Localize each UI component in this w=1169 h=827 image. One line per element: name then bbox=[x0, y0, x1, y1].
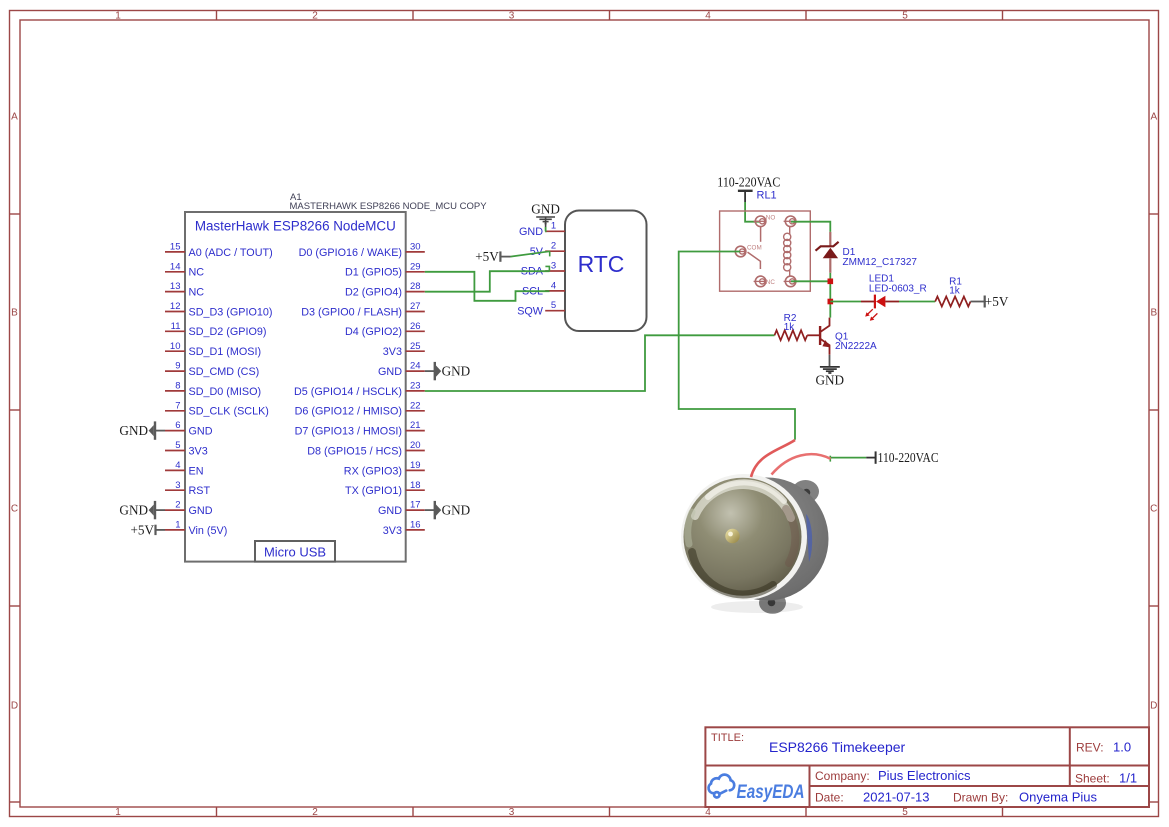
svg-text:D: D bbox=[1150, 701, 1157, 712]
IC RTC body bbox=[565, 211, 647, 332]
IC U1 A1 MasterHawk ESP8266 NodeMCU body bbox=[185, 212, 406, 562]
bell wire 2 (red, to 110-220VAC net) bbox=[772, 454, 831, 474]
svg-text:16: 16 bbox=[410, 520, 421, 531]
svg-text:NO: NO bbox=[766, 215, 776, 222]
pin 13 NC (U1 left) bbox=[165, 281, 204, 298]
pin 5 SQW (RTC) bbox=[517, 300, 565, 317]
svg-text:D5 (GPIO14 / HSCLK): D5 (GPIO14 / HSCLK) bbox=[294, 386, 402, 398]
svg-text:5: 5 bbox=[175, 440, 180, 451]
pin 22 D6 (GPIO12 / HMISO) (U1 right) bbox=[295, 400, 425, 417]
svg-text:25: 25 bbox=[410, 341, 421, 352]
svg-text:5: 5 bbox=[902, 807, 908, 818]
svg-text:NC: NC bbox=[766, 279, 776, 286]
svg-text:3V3: 3V3 bbox=[383, 525, 402, 537]
svg-text:12: 12 bbox=[170, 301, 181, 312]
svg-text:1: 1 bbox=[115, 10, 121, 21]
label RL1 bbox=[757, 190, 777, 202]
svg-text:6: 6 bbox=[175, 420, 180, 431]
svg-text:REV:: REV: bbox=[1076, 741, 1104, 755]
svg-text:COM: COM bbox=[747, 245, 762, 252]
transistor Q1 2N2222A bbox=[807, 318, 830, 355]
pin 17 GND (U1 right) bbox=[378, 500, 425, 517]
pin 15 A0 (ADC / TOUT) (U1 left) bbox=[165, 242, 273, 259]
svg-text:Date:: Date: bbox=[815, 791, 844, 805]
svg-text:3V3: 3V3 bbox=[189, 445, 208, 457]
net port 110-220VAC (right) bbox=[866, 450, 938, 465]
svg-text:NC: NC bbox=[189, 287, 205, 299]
label Q1 2N2222A bbox=[835, 331, 877, 352]
pin 6 GND (U1 left) bbox=[165, 420, 213, 437]
pin 1 Vin (5V) (U1 left) bbox=[165, 520, 227, 537]
pin 28 D2 (GPIO4) (U1 right) bbox=[345, 281, 425, 298]
svg-text:A: A bbox=[1150, 112, 1157, 123]
junction node (relay NC / D1) bbox=[828, 279, 834, 285]
svg-text:D6 (GPIO12 / HMISO): D6 (GPIO12 / HMISO) bbox=[295, 406, 402, 418]
svg-text:4: 4 bbox=[175, 460, 180, 471]
svg-text:1: 1 bbox=[551, 221, 556, 232]
wire D1(GPIO5) pin29 to RTC SCL bbox=[425, 272, 550, 301]
pin 19 RX (GPIO3) (U1 right) bbox=[344, 460, 425, 477]
pin 4 EN (U1 left) bbox=[165, 460, 204, 477]
svg-text:24: 24 bbox=[410, 361, 421, 372]
svg-text:GND: GND bbox=[531, 201, 560, 216]
svg-text:13: 13 bbox=[170, 281, 181, 292]
svg-text:D0 (GPIO16 / WAKE): D0 (GPIO16 / WAKE) bbox=[299, 247, 402, 259]
pin 2 GND (U1 left) bbox=[165, 500, 213, 517]
svg-text:D7 (GPIO13 / HMOSI): D7 (GPIO13 / HMOSI) bbox=[295, 426, 402, 438]
svg-text:Vin (5V): Vin (5V) bbox=[189, 525, 228, 537]
svg-text:Sheet:: Sheet: bbox=[1075, 771, 1110, 785]
net port 110-220VAC (top) bbox=[717, 175, 780, 203]
Micro USB connector box bbox=[255, 541, 335, 562]
svg-text:20: 20 bbox=[410, 440, 421, 451]
pin 30 D0 (GPIO16 / WAKE) (U1 right) bbox=[299, 242, 425, 259]
svg-text:2: 2 bbox=[312, 10, 318, 21]
svg-text:ZMM12_C17327: ZMM12_C17327 bbox=[843, 257, 918, 268]
svg-text:17: 17 bbox=[410, 500, 421, 511]
wire LED1 to R1 bbox=[899, 301, 935, 303]
svg-text:11: 11 bbox=[171, 321, 181, 332]
svg-text:2: 2 bbox=[551, 241, 556, 252]
svg-text:110-220VAC: 110-220VAC bbox=[878, 450, 939, 465]
pin 27 D3 (GPIO0 / FLASH) (U1 right) bbox=[301, 301, 425, 318]
svg-text:18: 18 bbox=[410, 480, 421, 491]
ground flag GND (left) bbox=[119, 421, 165, 439]
svg-text:C: C bbox=[11, 504, 18, 515]
relay RL1 bbox=[720, 211, 811, 291]
svg-text:D1 (GPIO5): D1 (GPIO5) bbox=[345, 267, 402, 279]
svg-text:15: 15 bbox=[170, 242, 181, 253]
pin 29 D1 (GPIO5) (U1 right) bbox=[345, 261, 425, 278]
svg-text:1k: 1k bbox=[784, 322, 796, 333]
svg-text:14: 14 bbox=[170, 261, 181, 272]
svg-text:TITLE:: TITLE: bbox=[711, 732, 744, 744]
svg-text:Micro USB: Micro USB bbox=[264, 544, 326, 559]
svg-text:RTC: RTC bbox=[578, 251, 625, 277]
pin 1 GND (RTC) bbox=[519, 221, 565, 238]
power flag +5V (pin 1) bbox=[130, 523, 165, 538]
svg-text:+5V: +5V bbox=[985, 294, 1009, 309]
pin 12 SD_D3 (GPIO10) (U1 left) bbox=[165, 301, 273, 318]
svg-text:5: 5 bbox=[902, 10, 908, 21]
label R1 1k bbox=[949, 276, 962, 296]
svg-text:GND: GND bbox=[816, 373, 845, 388]
svg-text:9: 9 bbox=[175, 361, 180, 372]
svg-text:Company:: Company: bbox=[815, 769, 870, 783]
svg-text:Onyema Pius: Onyema Pius bbox=[1019, 790, 1098, 805]
resistor R1 1k bbox=[935, 297, 970, 307]
svg-text:SD_D0 (MISO): SD_D0 (MISO) bbox=[189, 386, 262, 398]
svg-text:7: 7 bbox=[175, 400, 180, 411]
svg-text:28: 28 bbox=[410, 281, 421, 292]
svg-text:SD_CMD (CS): SD_CMD (CS) bbox=[189, 366, 260, 378]
svg-text:1/1: 1/1 bbox=[1119, 770, 1137, 785]
pin 4 SCL (RTC) bbox=[522, 280, 565, 297]
resistor R2 1k bbox=[775, 330, 808, 340]
power flag +5V to RTC pin 2 bbox=[475, 249, 510, 264]
svg-text:GND: GND bbox=[378, 505, 402, 517]
svg-text:D8 (GPIO15 / HCS): D8 (GPIO15 / HCS) bbox=[307, 445, 402, 457]
svg-text:TX (GPIO1): TX (GPIO1) bbox=[345, 485, 402, 497]
svg-text:21: 21 bbox=[410, 420, 421, 431]
pin 8 SD_D0 (MISO) (U1 left) bbox=[165, 381, 261, 398]
svg-text:SD_D1 (MOSI): SD_D1 (MOSI) bbox=[189, 346, 262, 358]
wire D2(GPIO4) pin28 to RTC SDA bbox=[425, 266, 550, 291]
svg-text:EN: EN bbox=[189, 465, 204, 477]
svg-text:B: B bbox=[1150, 308, 1157, 319]
svg-text:RL1: RL1 bbox=[757, 190, 777, 202]
svg-text:Drawn By:: Drawn By: bbox=[953, 791, 1008, 805]
pin 25 3V3 (U1 right) bbox=[383, 341, 425, 358]
svg-text:D3 (GPIO0 / FLASH): D3 (GPIO0 / FLASH) bbox=[301, 306, 402, 318]
svg-text:A0 (ADC / TOUT): A0 (ADC / TOUT) bbox=[189, 247, 273, 259]
wire 110-220VAC to relay NO bbox=[745, 202, 760, 222]
pin 7 SD_CLK (SCLK) (U1 left) bbox=[165, 400, 269, 417]
svg-text:110-220VAC: 110-220VAC bbox=[717, 175, 780, 190]
svg-text:RX (GPIO3): RX (GPIO3) bbox=[344, 465, 402, 477]
svg-text:D2 (GPIO4): D2 (GPIO4) bbox=[345, 287, 402, 299]
wire bell to 110-220VAC port bbox=[830, 456, 867, 462]
svg-text:3: 3 bbox=[551, 260, 556, 271]
svg-text:EasyEDA: EasyEDA bbox=[737, 782, 805, 803]
svg-text:2N2222A: 2N2222A bbox=[835, 341, 877, 352]
svg-text:ESP8266 Timekeeper: ESP8266 Timekeeper bbox=[769, 739, 906, 755]
svg-text:GND: GND bbox=[378, 366, 402, 378]
svg-text:D4 (GPIO2): D4 (GPIO2) bbox=[345, 326, 402, 338]
svg-text:5: 5 bbox=[551, 300, 556, 311]
pin 23 D5 (GPIO14 / HSCLK) (U1 right) bbox=[294, 381, 425, 398]
svg-text:2021-07-13: 2021-07-13 bbox=[863, 790, 930, 805]
svg-text:B: B bbox=[11, 308, 18, 319]
pin 18 TX (GPIO1) (U1 right) bbox=[345, 480, 425, 497]
wire relay coil bottom to junction bbox=[791, 280, 830, 282]
svg-text:NC: NC bbox=[189, 267, 205, 279]
svg-text:26: 26 bbox=[410, 321, 421, 332]
svg-text:1k: 1k bbox=[949, 286, 961, 297]
svg-text:4: 4 bbox=[551, 280, 556, 291]
wire junction to LED1 bbox=[830, 301, 861, 303]
svg-text:SD_CLK (SCLK): SD_CLK (SCLK) bbox=[189, 406, 269, 418]
svg-text:22: 22 bbox=[410, 400, 421, 411]
svg-text:4: 4 bbox=[705, 807, 711, 818]
part name MASTERHAWK ESP8266 NODE_MCU COPY bbox=[290, 201, 488, 212]
pin 24 GND (U1 right) bbox=[378, 361, 425, 378]
svg-text:19: 19 bbox=[410, 460, 421, 471]
pin 5 3V3 (U1 left) bbox=[165, 440, 208, 457]
svg-text:GND: GND bbox=[119, 423, 148, 438]
svg-text:LED-0603_R: LED-0603_R bbox=[869, 283, 927, 294]
svg-text:1: 1 bbox=[115, 807, 121, 818]
svg-text:1.0: 1.0 bbox=[1113, 740, 1131, 755]
pin 3 RST (U1 left) bbox=[165, 480, 210, 497]
label R2 1k bbox=[784, 313, 797, 333]
designator A1 bbox=[290, 192, 302, 203]
svg-text:29: 29 bbox=[410, 261, 421, 272]
pin 2 5V (RTC) bbox=[530, 241, 565, 258]
ground flag GND (above RTC pin 1) bbox=[531, 201, 560, 231]
power flag +5V (right of R1) bbox=[971, 294, 1009, 309]
svg-text:8: 8 bbox=[175, 381, 180, 392]
pin 20 D8 (GPIO15 / HCS) (U1 right) bbox=[307, 440, 425, 457]
svg-text:+5V: +5V bbox=[130, 523, 154, 538]
svg-text:MasterHawk ESP8266 NodeMCU: MasterHawk ESP8266 NodeMCU bbox=[195, 219, 396, 234]
svg-text:C: C bbox=[1150, 504, 1157, 515]
EasyEDA logo bbox=[709, 775, 805, 803]
svg-text:RST: RST bbox=[189, 485, 211, 497]
wire D5(GPIO14) pin23 to R2 bbox=[425, 335, 775, 391]
svg-text:Pius Electronics: Pius Electronics bbox=[878, 768, 971, 783]
ground flag GND (left) bbox=[119, 501, 165, 519]
pin 9 SD_CMD (CS) (U1 left) bbox=[165, 361, 259, 378]
svg-text:MASTERHAWK ESP8266 NODE_MCU CO: MASTERHAWK ESP8266 NODE_MCU COPY bbox=[290, 201, 488, 212]
svg-text:2: 2 bbox=[175, 500, 180, 511]
ground flag GND (right) bbox=[425, 362, 470, 380]
svg-text:GND: GND bbox=[189, 426, 213, 438]
junction node (LED branch / collector) bbox=[828, 299, 834, 305]
svg-text:27: 27 bbox=[410, 301, 421, 312]
pin 16 3V3 (U1 right) bbox=[383, 520, 425, 537]
svg-text:+5V: +5V bbox=[475, 249, 499, 264]
svg-text:3: 3 bbox=[509, 807, 515, 818]
svg-text:3: 3 bbox=[175, 480, 180, 491]
pin 3 SDA (RTC) bbox=[521, 260, 565, 277]
svg-text:23: 23 bbox=[410, 381, 421, 392]
svg-text:SQW: SQW bbox=[517, 305, 544, 317]
svg-text:D: D bbox=[11, 701, 18, 712]
svg-text:GND: GND bbox=[442, 503, 471, 518]
svg-text:3: 3 bbox=[509, 10, 515, 21]
ground flag GND (right) bbox=[425, 501, 470, 519]
bell wire 1 (red, to relay COM net) bbox=[751, 440, 795, 477]
pin 21 D7 (GPIO13 / HMOSI) (U1 right) bbox=[295, 420, 425, 437]
svg-text:SD_D3 (GPIO10): SD_D3 (GPIO10) bbox=[189, 306, 273, 318]
pin 10 SD_D1 (MOSI) (U1 left) bbox=[165, 341, 261, 358]
wire relay coil top to D1 bbox=[791, 222, 830, 232]
svg-text:4: 4 bbox=[705, 10, 711, 21]
svg-text:A: A bbox=[11, 112, 18, 123]
svg-text:30: 30 bbox=[410, 242, 421, 253]
pin 14 NC (U1 left) bbox=[165, 261, 204, 278]
label LED1 LED-0603_R bbox=[869, 274, 927, 295]
wire relay COM to bell bbox=[679, 252, 795, 440]
svg-text:GND: GND bbox=[442, 364, 471, 379]
svg-text:3V3: 3V3 bbox=[383, 346, 402, 358]
wire D1 bottom through junctions to Q1 collector bbox=[829, 273, 831, 318]
svg-text:2: 2 bbox=[312, 807, 318, 818]
svg-text:10: 10 bbox=[170, 341, 181, 352]
LED LED1 bbox=[861, 295, 899, 321]
pin 26 D4 (GPIO2) (U1 right) bbox=[345, 321, 425, 338]
bell (photo) bbox=[681, 474, 829, 614]
svg-text:1: 1 bbox=[175, 520, 180, 531]
label D1 ZMM12_C17327 bbox=[843, 247, 918, 268]
wire +5V to RTC 5V pin bbox=[511, 251, 550, 256]
pin 11 SD_D2 (GPIO9) (U1 left) bbox=[165, 321, 267, 338]
title block bbox=[705, 727, 1149, 807]
svg-text:SD_D2 (GPIO9): SD_D2 (GPIO9) bbox=[189, 326, 267, 338]
svg-text:GND: GND bbox=[119, 503, 148, 518]
ground GND (Q1 emitter) bbox=[816, 355, 845, 388]
svg-text:GND: GND bbox=[519, 226, 543, 238]
diode D1 zener ZMM12 bbox=[816, 232, 839, 273]
svg-text:GND: GND bbox=[189, 505, 213, 517]
